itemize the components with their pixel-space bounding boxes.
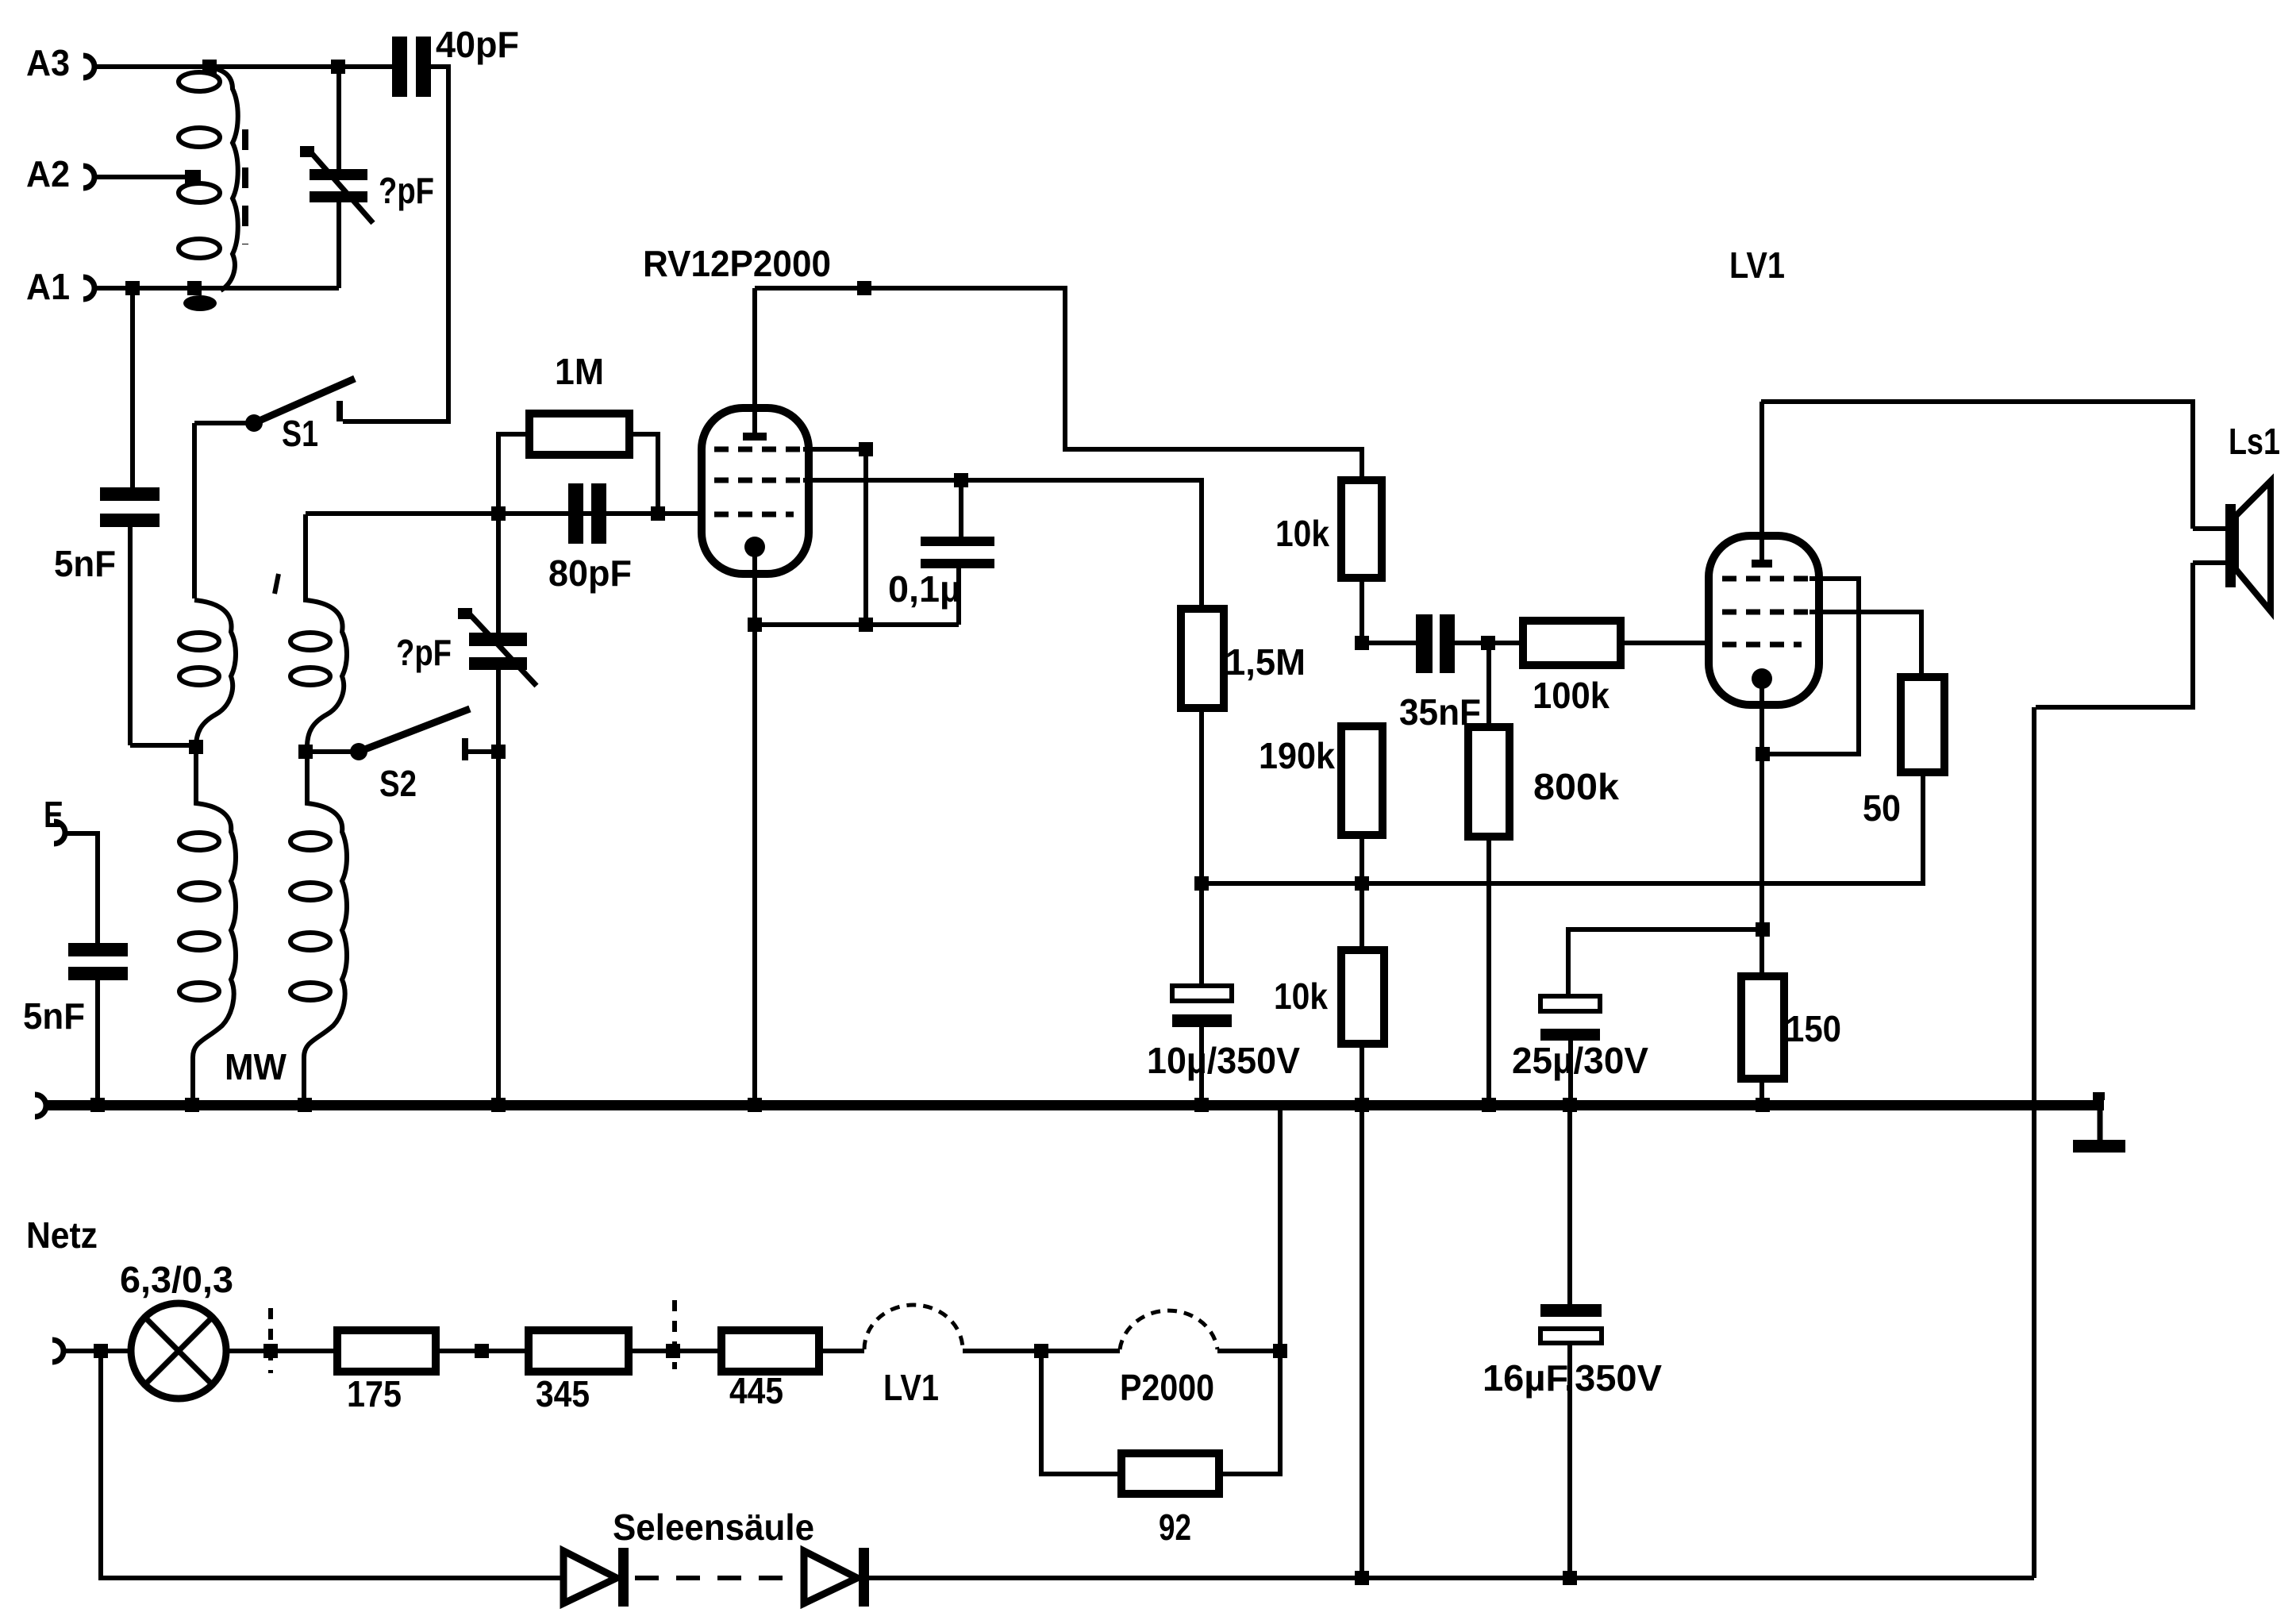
svg-text:800k: 800k xyxy=(1533,766,1619,807)
svg-text:16µF.350V: 16µF.350V xyxy=(1483,1357,1662,1399)
svg-text:A2: A2 xyxy=(26,153,70,194)
svg-text:0,1µ: 0,1µ xyxy=(888,568,961,610)
svg-text:10µ/350V: 10µ/350V xyxy=(1147,1040,1300,1081)
svg-text:175: 175 xyxy=(347,1373,402,1414)
svg-text:A1: A1 xyxy=(26,266,70,307)
svg-text:S2: S2 xyxy=(379,763,417,804)
svg-text:LV1: LV1 xyxy=(883,1367,939,1408)
svg-text:S1: S1 xyxy=(282,413,318,454)
svg-text:5nF: 5nF xyxy=(54,543,116,584)
svg-text:Netz: Netz xyxy=(26,1214,98,1256)
svg-text:345: 345 xyxy=(536,1373,590,1414)
svg-text:25µ/30V: 25µ/30V xyxy=(1512,1040,1648,1081)
svg-text:A3: A3 xyxy=(26,42,70,83)
svg-text:MW: MW xyxy=(225,1046,287,1087)
svg-text:?pF: ?pF xyxy=(379,170,434,211)
svg-text:1M: 1M xyxy=(555,351,604,392)
svg-text:Ls1: Ls1 xyxy=(2229,421,2280,462)
svg-text:150: 150 xyxy=(1786,1008,1841,1049)
svg-text:6,3/0,3: 6,3/0,3 xyxy=(120,1259,233,1300)
svg-text:92: 92 xyxy=(1159,1507,1191,1548)
svg-text:Seleensäule: Seleensäule xyxy=(613,1507,814,1548)
svg-text:P2000: P2000 xyxy=(1120,1367,1214,1408)
svg-text:50: 50 xyxy=(1863,787,1901,829)
svg-text:10k: 10k xyxy=(1275,513,1329,554)
svg-text:RV12P2000: RV12P2000 xyxy=(643,243,831,284)
svg-text:445: 445 xyxy=(729,1370,783,1411)
svg-text:80pF: 80pF xyxy=(548,552,632,594)
svg-text:10k: 10k xyxy=(1274,976,1328,1017)
svg-text:190k: 190k xyxy=(1259,735,1335,776)
svg-text:5nF: 5nF xyxy=(23,995,85,1037)
svg-text:?pF: ?pF xyxy=(396,632,452,673)
svg-text:100k: 100k xyxy=(1533,675,1610,716)
svg-text:1,5M: 1,5M xyxy=(1225,641,1306,683)
svg-text:LV1: LV1 xyxy=(1729,244,1785,286)
svg-text:E: E xyxy=(44,794,63,835)
svg-text:40pF: 40pF xyxy=(436,24,519,65)
